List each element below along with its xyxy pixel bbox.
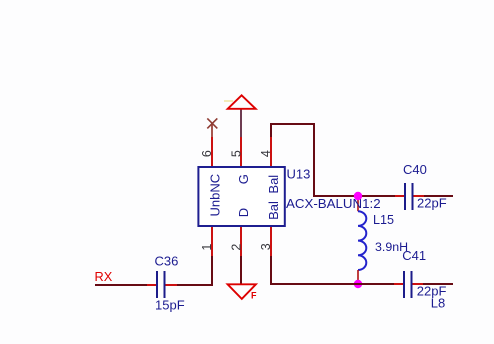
wire junction to C41: [358, 283, 394, 285]
junction dot top: [354, 192, 362, 200]
svg-text:L8: L8: [431, 296, 445, 311]
capacitor C36: [147, 271, 177, 298]
power symbol triangle up: [228, 95, 256, 109]
capacitor C41: [394, 271, 423, 298]
no-connect X: [207, 118, 217, 128]
pin 3 stub: [270, 226, 272, 256]
svg-text:L15: L15: [373, 213, 394, 227]
balun U13 body: [198, 167, 284, 226]
svg-text:UnbNC: UnbNC: [207, 174, 222, 217]
wire C41 right: [423, 283, 453, 285]
svg-text:1: 1: [200, 244, 214, 251]
wire pin3 down: [270, 256, 272, 285]
capacitor C40: [395, 183, 424, 210]
svg-text:U13: U13: [287, 167, 311, 182]
wire power stem: [240, 108, 242, 137]
svg-text:Bal: Bal: [266, 201, 281, 220]
wire pin6 up to no-connect: [211, 123, 213, 137]
svg-text:C40: C40: [403, 162, 427, 177]
svg-text:F: F: [251, 291, 257, 301]
wire pin3 horizontal to junction: [271, 283, 358, 285]
inductor L15 coil: [358, 211, 366, 270]
svg-text:D: D: [236, 208, 251, 217]
junction dot bottom: [354, 280, 362, 288]
svg-text:6: 6: [200, 150, 214, 157]
pin 1 stub: [211, 226, 213, 256]
svg-text:ACX-BALUN1:2: ACX-BALUN1:2: [286, 196, 381, 211]
svg-text:3: 3: [259, 243, 273, 250]
wire junction to C40: [358, 195, 396, 197]
wire RX horizontal left: [95, 284, 148, 286]
svg-text:RX: RX: [95, 269, 113, 284]
pin 4 stub: [270, 137, 272, 167]
svg-text:4: 4: [259, 150, 273, 157]
pin 5 stub: [240, 137, 242, 167]
svg-text:22pF: 22pF: [417, 196, 447, 211]
svg-text:Bal: Bal: [266, 175, 281, 194]
svg-text:C41: C41: [402, 248, 426, 263]
svg-text:2: 2: [230, 244, 244, 251]
wire pin1 vertical: [211, 256, 213, 286]
svg-text:C36: C36: [155, 254, 179, 269]
wire pin2 to ground: [240, 256, 242, 285]
inductor L15 lead top: [357, 196, 359, 211]
faint mark left of power symbol: [224, 100, 233, 102]
wire pin4 route up and over: [271, 124, 358, 196]
inductor L15 lead bottom: [357, 270, 359, 284]
wire C40 right: [424, 195, 453, 197]
svg-text:5: 5: [230, 150, 244, 157]
ground symbol triangle down: [228, 284, 256, 299]
pin 6 stub: [211, 137, 213, 167]
svg-text:15pF: 15pF: [155, 298, 185, 313]
svg-text:G: G: [236, 174, 251, 184]
wire C36 to pin 1: [176, 284, 212, 286]
pin 2 stub: [240, 226, 242, 256]
